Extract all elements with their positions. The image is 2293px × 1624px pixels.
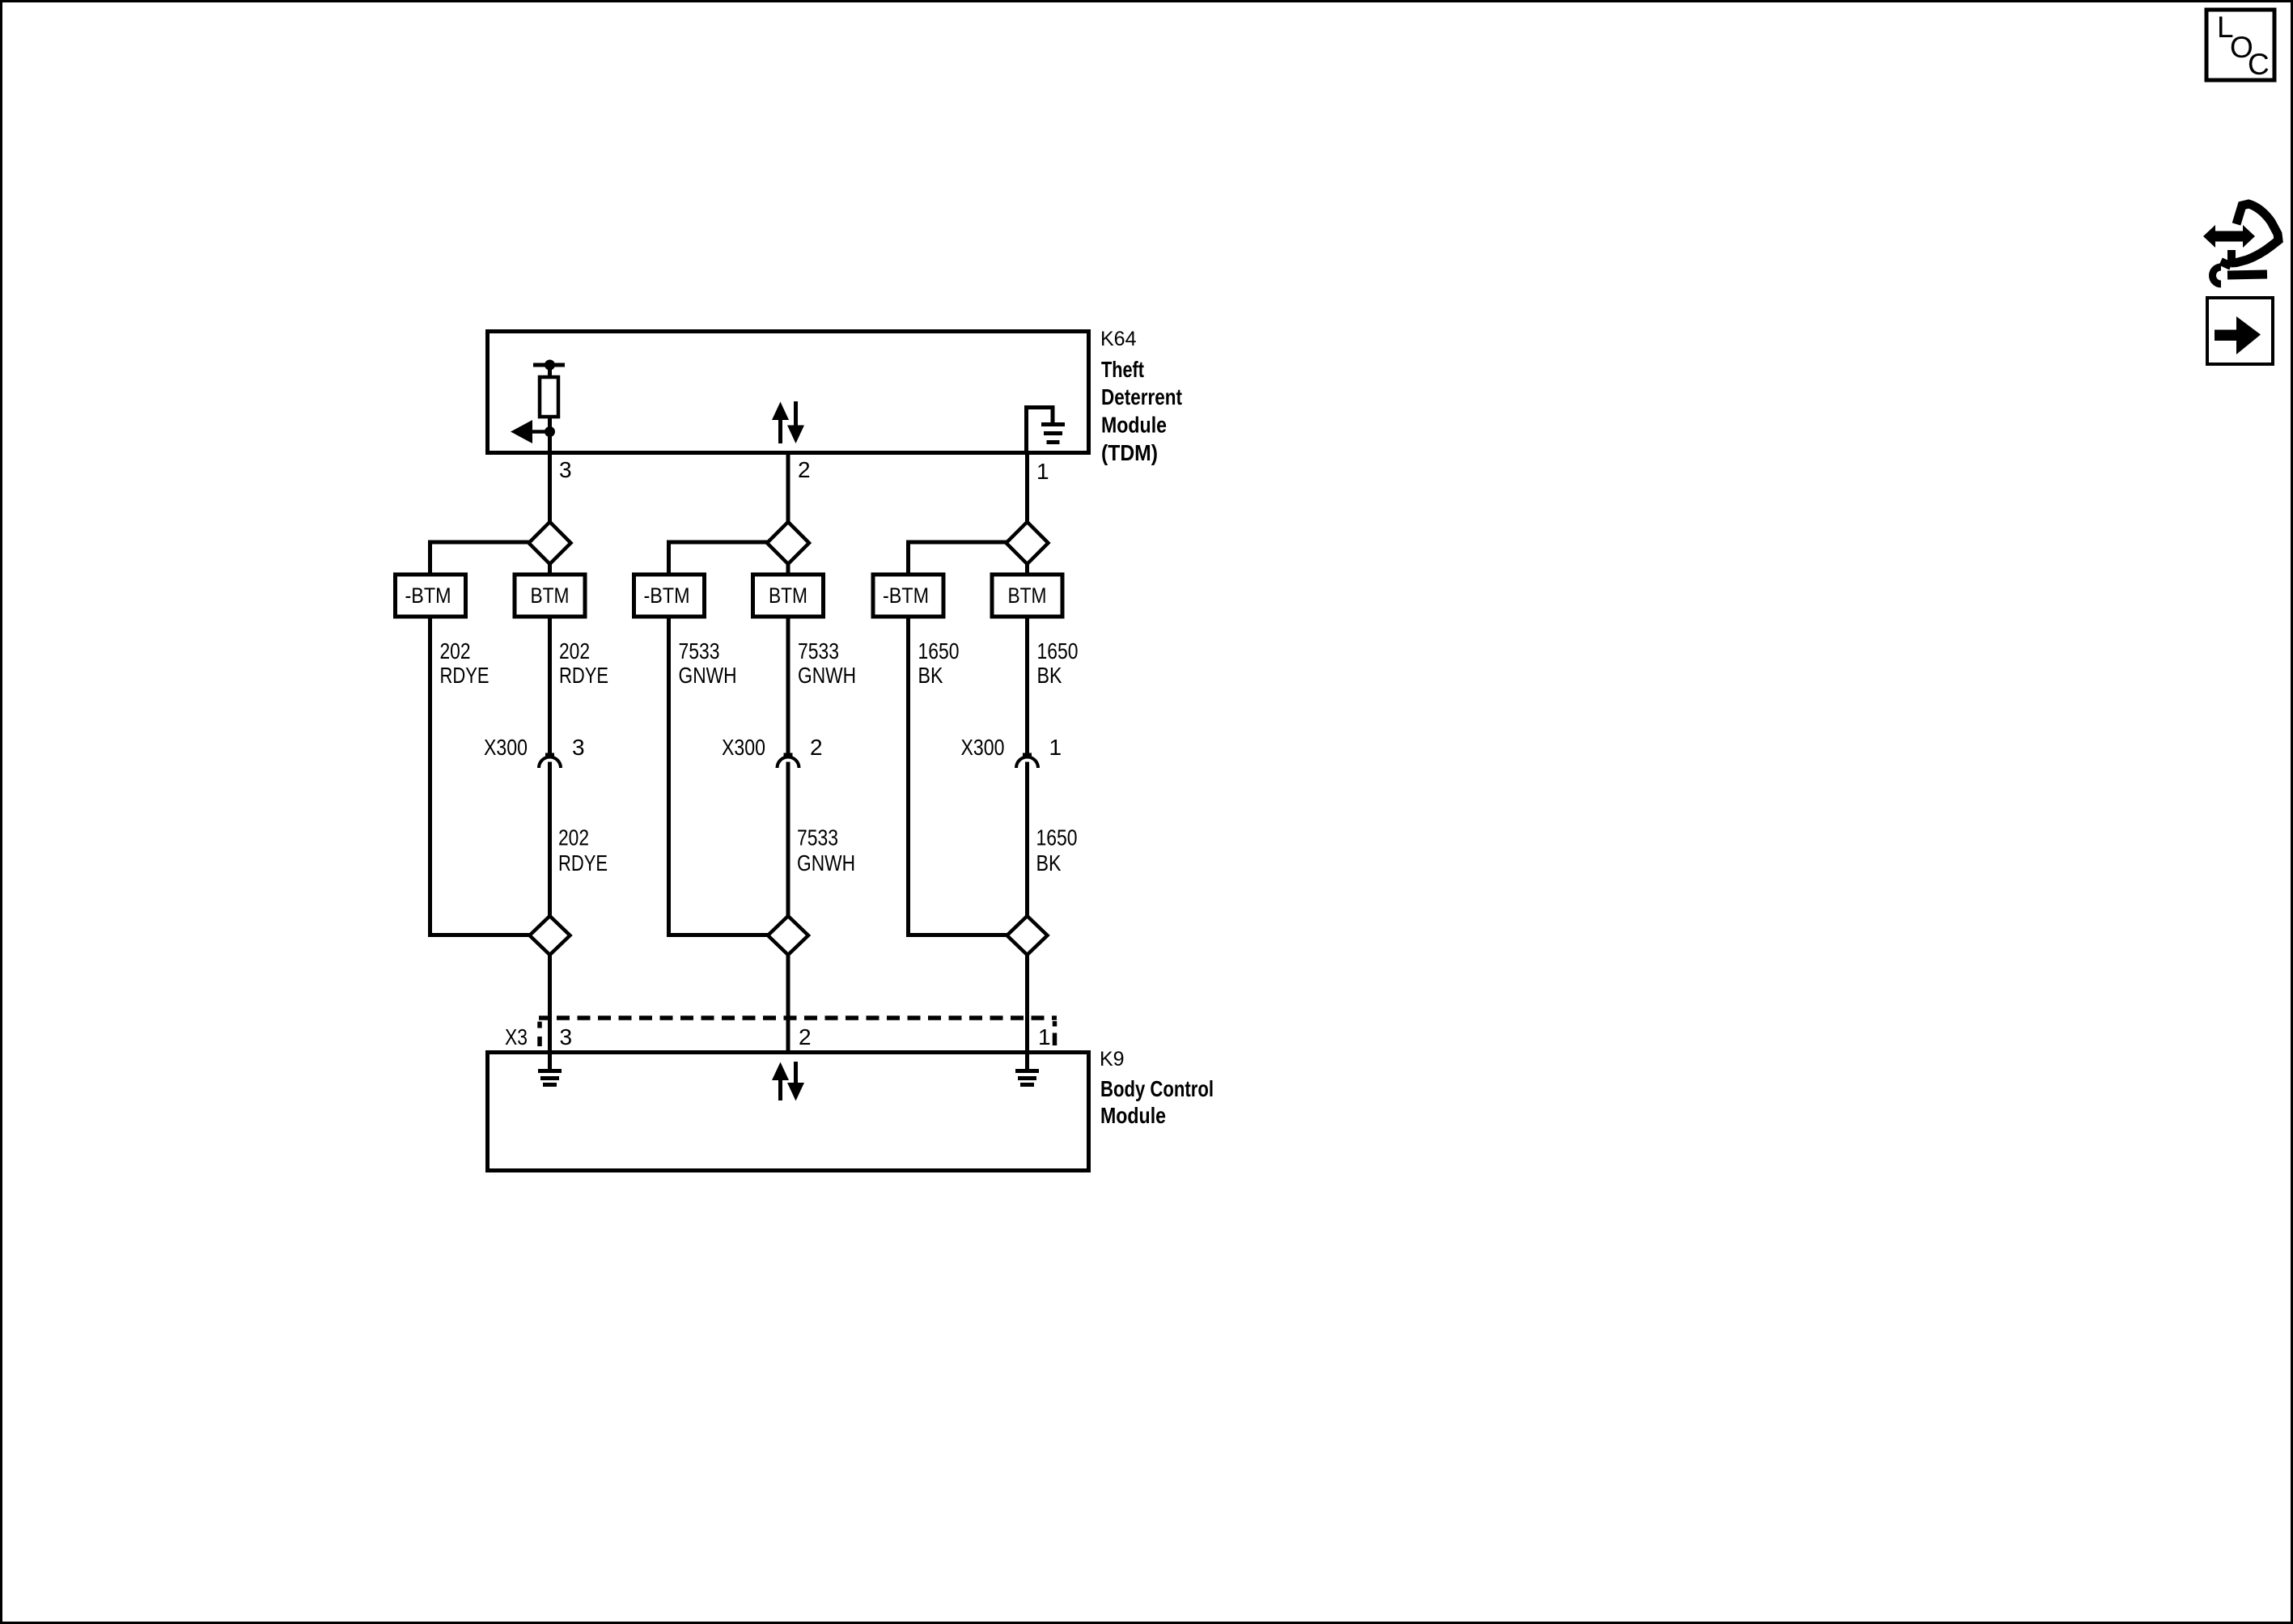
- wire -BTM down (group 2): [667, 617, 671, 937]
- svg-text:202: 202: [558, 825, 589, 850]
- svg-text:7533: 7533: [798, 638, 839, 664]
- connector terminal box -BTM (group 2): [634, 575, 705, 617]
- svg-text:2: 2: [799, 1024, 812, 1049]
- serial data bidirectional arrows inside K64: [772, 401, 804, 443]
- serial data bidirectional arrows inside K9: [772, 1062, 804, 1101]
- wire label 202 RDYE (group 1 lower): [558, 825, 608, 876]
- wire X300 pin 2 down to splice: [786, 762, 790, 918]
- wire BTM down to connector X300 (group 2): [786, 617, 790, 753]
- module K9 Body Control Module box: [488, 1053, 1089, 1171]
- svg-text:BTM: BTM: [769, 583, 807, 608]
- svg-text:RDYE: RDYE: [440, 663, 490, 688]
- svg-text:-BTM: -BTM: [405, 583, 451, 608]
- wire splice S3 to BTM: [1025, 564, 1029, 576]
- wire label 7533 GNWH (group 2 left): [679, 638, 737, 688]
- wire -BTM down (group 1): [428, 617, 432, 937]
- svg-text:Module: Module: [1100, 1103, 1166, 1128]
- splice diamond S3 upper: [1007, 522, 1049, 564]
- wire K64 pin 2 down to splice: [786, 453, 790, 524]
- connector terminal box BTM (group 1): [515, 575, 585, 617]
- connector terminal box -BTM (group 3): [873, 575, 943, 617]
- wire left branch into splice S6 (group 3): [909, 933, 1008, 937]
- wire splice S2 to left branch and -BTM: [669, 542, 768, 575]
- svg-text:202: 202: [440, 638, 471, 664]
- svg-text:3: 3: [572, 735, 585, 760]
- wire -BTM down (group 3): [906, 617, 910, 937]
- svg-text:GNWH: GNWH: [679, 663, 737, 688]
- wire X300 pin 1 down to splice: [1025, 762, 1029, 918]
- splice diamond S2 upper: [767, 522, 809, 564]
- svg-text:202: 202: [559, 638, 590, 664]
- wire K64 pin 1 down to splice: [1025, 453, 1029, 524]
- svg-text:1: 1: [1036, 459, 1049, 484]
- K9 name label: [1100, 1076, 1214, 1128]
- ground symbol inside K64: [1024, 405, 1065, 455]
- svg-text:7533: 7533: [797, 825, 838, 850]
- wire X300 pin 3 down to splice: [548, 762, 552, 918]
- wire splice S1 to BTM: [548, 564, 552, 576]
- svg-text:1650: 1650: [1036, 825, 1078, 850]
- svg-text:2: 2: [810, 735, 823, 760]
- svg-text:1650: 1650: [918, 638, 960, 664]
- svg-text:GNWH: GNWH: [797, 850, 855, 876]
- svg-text:1650: 1650: [1037, 638, 1079, 664]
- wire splice S5 down to K9 pin 2: [786, 955, 790, 1054]
- security indicator driver symbol inside K64 (resistor R with output arrow): [511, 360, 565, 456]
- svg-text:K9: K9: [1100, 1048, 1125, 1071]
- forward/next arrow icon: [2207, 298, 2273, 364]
- wire label 7533 GNWH (group 2 lower): [797, 825, 855, 876]
- wire label 7533 GNWH (group 2 right): [798, 638, 856, 688]
- in-line connector symbol X300 pin 3: [539, 753, 561, 769]
- svg-text:X300: X300: [961, 735, 1005, 760]
- module K64 Theft Deterrent Module (TDM) box: [488, 332, 1089, 453]
- splice diamond S6 lower (group 3): [1007, 916, 1048, 955]
- wire label 202 RDYE (group 1 right): [559, 638, 608, 688]
- svg-text:C: C: [2248, 48, 2270, 81]
- connector terminal box BTM (group 3): [992, 575, 1062, 617]
- svg-text:Deterrent: Deterrent: [1101, 384, 1182, 409]
- svg-text:X300: X300: [722, 735, 765, 760]
- svg-text:BK: BK: [1037, 663, 1062, 688]
- svg-text:Theft: Theft: [1101, 357, 1144, 382]
- svg-text:RDYE: RDYE: [559, 663, 608, 688]
- svg-text:RDYE: RDYE: [558, 850, 608, 876]
- connector terminal box -BTM (group 1): [396, 575, 466, 617]
- wire K64 pin 3 down to splice: [548, 453, 552, 524]
- in-line connector symbol X300 pin 2: [778, 753, 799, 769]
- svg-text:BTM: BTM: [1008, 583, 1047, 608]
- svg-text:-BTM: -BTM: [644, 583, 690, 608]
- connector terminal box BTM (group 2): [753, 575, 824, 617]
- svg-text:X300: X300: [484, 735, 528, 760]
- LOC legend box: [2206, 10, 2274, 81]
- wire label 202 RDYE (group 1 left): [440, 638, 490, 688]
- wire left branch into splice S5 (group 2): [669, 933, 769, 937]
- in-line connector symbol X300 pin 1: [1016, 753, 1038, 769]
- wire BTM down to connector X300 (group 3): [1025, 617, 1029, 753]
- svg-text:X3: X3: [505, 1024, 528, 1049]
- splice diamond S4 lower (group 1): [530, 916, 570, 955]
- wire splice S6 down to K9 pin 1 ground: [1025, 955, 1029, 1069]
- wire BTM down to connector X300 (group 1): [548, 617, 552, 753]
- svg-text:Module: Module: [1101, 413, 1167, 438]
- svg-text:7533: 7533: [679, 638, 720, 664]
- wire splice S1 to left branch and -BTM: [430, 542, 530, 575]
- wire label 1650 BK (group 3 left): [918, 638, 960, 688]
- jump/pointer icon (double arrow, hook arrow, wrench): [2203, 204, 2278, 284]
- wire splice S2 to BTM: [786, 564, 790, 576]
- svg-text:Body Control: Body Control: [1100, 1076, 1214, 1101]
- svg-text:BK: BK: [918, 663, 943, 688]
- svg-text:K64: K64: [1100, 328, 1137, 350]
- svg-text:2: 2: [798, 457, 811, 482]
- splice diamond S5 lower (group 2): [768, 916, 808, 955]
- svg-text:1: 1: [1038, 1024, 1051, 1049]
- wire splice S4 down to K9 pin 3 ground: [548, 955, 552, 1069]
- svg-text:1: 1: [1049, 735, 1062, 760]
- wire left branch into splice S4 (group 1): [430, 933, 531, 937]
- svg-text:(TDM): (TDM): [1101, 440, 1158, 465]
- svg-text:-BTM: -BTM: [883, 583, 929, 608]
- svg-text:BTM: BTM: [531, 583, 570, 608]
- svg-text:GNWH: GNWH: [798, 663, 856, 688]
- splice diamond S1 upper: [529, 522, 571, 564]
- wire label 1650 BK (group 3 right): [1037, 638, 1079, 688]
- svg-text:3: 3: [559, 457, 572, 482]
- svg-text:BK: BK: [1036, 850, 1062, 876]
- wire splice S3 to left branch and -BTM: [909, 542, 1007, 575]
- ground symbol inside K9 at pin 1: [1015, 1069, 1039, 1087]
- ground symbol inside K9 at pin 3: [538, 1069, 562, 1087]
- connector X3 dashed outline: [539, 1018, 1057, 1046]
- svg-text:3: 3: [560, 1024, 573, 1049]
- wire label 1650 BK (group 3 lower): [1036, 825, 1078, 876]
- K64 name label: [1101, 357, 1182, 465]
